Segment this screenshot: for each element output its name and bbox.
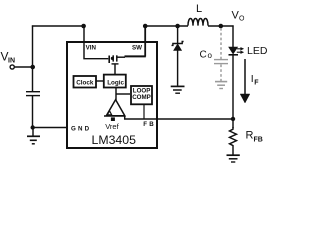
capacitor CIN top plate [26,91,40,93]
diode D1 schottky cathode [172,42,184,46]
wire top VIN rail [32,25,84,27]
svg-text:LED: LED [247,45,268,57]
svg-text:R: R [246,130,254,142]
capacitor CIN bottom plate [26,95,40,97]
label VIN [1,50,16,65]
node input junction [30,65,35,70]
svg-text:FB: FB [254,137,263,144]
ground diode [171,86,185,93]
wire junction to GND pin [33,127,67,129]
wire inductor to Vo corner [208,25,234,27]
svg-text:COMP: COMP [132,94,151,101]
resistor RFB [230,127,237,155]
wire clock to logic [96,80,104,82]
wire from VIN terminal to junction [15,66,33,68]
capacitor Co dashed lead lower [220,65,222,82]
diode D1 wire down [177,26,179,44]
svg-text:O: O [239,16,245,23]
svg-text:o: o [208,51,213,60]
wire FB internal [125,116,233,119]
svg-text:Logic: Logic [107,79,124,86]
loop comp block [131,86,152,104]
wire branch to loop comp [116,93,130,95]
wire VIN pin down into IC [84,26,108,59]
wire diode to ground [177,50,179,86]
svg-text:C: C [200,50,207,61]
node diode junction [175,24,180,29]
ground Co [215,82,227,89]
node VIN terminal [10,65,14,69]
clock block [74,76,97,88]
svg-text:SW: SW [132,44,142,51]
svg-text:Vref: Vref [105,122,119,131]
label Vo [232,10,246,23]
label IF [251,73,259,87]
wire SW rail to inductor [145,25,188,27]
capacitor Co plates [214,60,228,64]
svg-text:GND: GND [71,125,91,132]
current arrow IF [240,59,250,103]
node delta symbol [107,111,111,115]
wire SW pin up [144,26,146,57]
wire left vertical rail [32,25,34,91]
wire Vo down to LED [232,25,234,47]
svg-text:F: F [254,80,259,87]
node SW rail dot [143,24,148,29]
transistor Q1 internal MOSFET [109,55,146,74]
diode D1 anode [174,44,181,50]
logic block [104,75,126,88]
svg-text:LM3405: LM3405 [92,133,137,147]
node VIN pin junction [81,24,86,29]
node FB junction [231,117,235,121]
node Co junction [219,24,224,29]
svg-text:Clock: Clock [76,79,94,86]
label Co [200,50,213,61]
LED D2 [229,47,238,54]
wire logic to error amp [115,87,117,101]
LED arrows [237,47,244,53]
wire amp base line [104,115,125,117]
wire capacitor to ground junction [32,96,34,128]
node ground junction [31,125,35,129]
svg-text:L: L [196,3,202,15]
ground input [27,128,40,144]
wire loop comp to FB [143,104,145,119]
node mosfet source dot [111,57,114,60]
svg-text:VIN: VIN [86,44,97,51]
node Vref tap [111,117,115,121]
capacitor Co dashed lead upper [220,28,222,59]
ground RFB [227,155,240,162]
svg-text:IN: IN [8,58,15,65]
svg-text:FB: FB [143,121,156,128]
label RFB [246,130,263,144]
inductor L [188,19,208,26]
wire LED to FB junction [232,55,234,128]
op-amp error amplifier [106,100,125,116]
op-amp U1 IC box LM3405 [67,42,157,148]
